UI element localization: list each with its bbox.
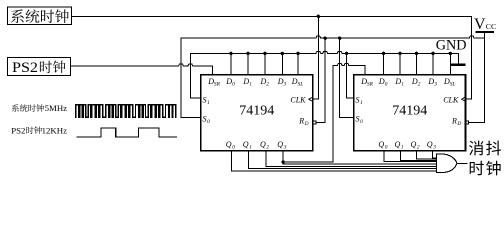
svg-text:CLK: CLK: [443, 96, 459, 105]
svg-text:0: 0: [385, 82, 388, 88]
svg-text:SR: SR: [214, 82, 221, 88]
wire: Q1 U2 to AND gate: [400, 151, 436, 161]
wire: system clock rail from 系统时钟 box to CLK of U2: [72, 16, 472, 99]
svg-text:CLK: CLK: [290, 96, 306, 105]
svg-text:SL: SL: [298, 82, 304, 88]
wire: U2 D0 stub to GND rail: [383, 53, 385, 75]
svg-text:0: 0: [232, 145, 235, 151]
waveform label: PS2时钟12KHz: [11, 125, 67, 135]
junction dot: S1 U2 on GND rail: [345, 52, 348, 55]
svg-text:S: S: [203, 95, 207, 104]
svg-text:SL: SL: [450, 82, 456, 88]
wire: Q3 U1 to D_SR U2 (hops over S risers of U2): [283, 64, 365, 163]
svg-text:1: 1: [401, 145, 404, 151]
junction dot: [229, 52, 232, 55]
wire: Q1 U1 to AND gate: [249, 151, 437, 169]
wire: Q3 U1 stub: [282, 151, 284, 162]
junction dot: [296, 52, 299, 55]
wire: U2 D2 stub to GND rail: [416, 53, 418, 75]
input port box: 系统时钟 (system clock): [8, 7, 72, 25]
waveform: system clock 5MHz: [76, 105, 176, 118]
wire: Q3 U1 to AND gate: [283, 162, 436, 164]
svg-text:2: 2: [417, 145, 420, 151]
svg-text:0: 0: [385, 145, 388, 151]
wire: U1 D1 stub to GND rail: [247, 53, 249, 75]
svg-text:1: 1: [207, 100, 210, 106]
svg-text:PS2: PS2: [11, 125, 25, 135]
wire: U1 DSL stub to GND rail: [297, 53, 299, 75]
svg-text:1: 1: [249, 145, 252, 151]
junction dot: [431, 52, 434, 55]
wire: Q0 U1 to AND gate: [232, 151, 437, 171]
junction dot: [398, 52, 401, 55]
wire: S0 of U1 to Vcc rail: [181, 38, 201, 117]
wire: Q0 U2 to AND gate: [384, 151, 436, 162]
svg-text:3: 3: [283, 82, 287, 88]
wire: AND gate output to 消抖时钟: [457, 162, 467, 164]
wire: S1 of U1 to GND rail: [190, 53, 201, 98]
wire: RD of U2 to Vcc vertical: [469, 121, 485, 123]
junction dot: Q3 U1 branch: [281, 160, 284, 163]
svg-text:3: 3: [433, 82, 437, 88]
svg-text:3: 3: [432, 145, 436, 151]
label: 消抖时钟 output: [469, 141, 501, 176]
svg-text:D: D: [456, 121, 461, 127]
svg-text:2: 2: [418, 82, 421, 88]
svg-text:Q: Q: [243, 140, 249, 149]
svg-text:1: 1: [360, 100, 363, 106]
svg-text:CC: CC: [486, 22, 496, 31]
junction dot: RD U1 on Vcc rail: [324, 37, 327, 40]
svg-text:PS2: PS2: [12, 60, 38, 76]
power symbol Vcc: [474, 16, 496, 123]
svg-text:D: D: [304, 121, 309, 127]
svg-text:Q: Q: [395, 140, 401, 149]
wire: GND rail: [190, 51, 458, 63]
svg-text:S: S: [356, 115, 360, 124]
svg-text:2: 2: [266, 82, 269, 88]
wire: Vcc rail: [181, 36, 485, 38]
svg-text:R: R: [298, 117, 304, 126]
junction dot: [449, 52, 452, 55]
svg-text:Q: Q: [277, 140, 283, 149]
polarity square: RD pin U2: [466, 121, 469, 124]
svg-text:3: 3: [283, 145, 287, 151]
svg-text:74194: 74194: [239, 104, 274, 119]
svg-text:1: 1: [249, 82, 252, 88]
svg-text:Q: Q: [411, 140, 417, 149]
junction dot: [246, 52, 249, 55]
svg-text:5MHz: 5MHz: [45, 103, 68, 113]
74194 shift register U1: [201, 75, 313, 151]
74194 shift register U2: [354, 75, 466, 151]
wire: Q2 U2 to AND gate: [416, 151, 436, 159]
svg-text:74194: 74194: [392, 104, 427, 119]
wire: CLK of U2 to clock rail vertical: [466, 98, 472, 100]
wire: U1 D2 stub to GND rail: [264, 53, 266, 75]
svg-text:V: V: [474, 16, 486, 33]
svg-text:1: 1: [401, 82, 404, 88]
svg-text:GND: GND: [436, 37, 467, 53]
wire: U1 D3 stub to GND rail: [281, 53, 283, 75]
junction dot: [415, 52, 418, 55]
input port box: PS2时钟 (PS2 clock): [8, 58, 71, 76]
AND gate U3 (8-input debounce): [436, 154, 457, 173]
svg-text:SR: SR: [367, 82, 374, 88]
polarity square: RD pin U1: [313, 121, 316, 124]
svg-text:S: S: [203, 115, 207, 124]
junction dot: [382, 52, 385, 55]
junction dot: S0 U2 on Vcc rail: [338, 37, 341, 40]
svg-text:Q: Q: [378, 140, 384, 149]
junction dot: [281, 52, 284, 55]
wire: S1 of U2 to GND rail: [347, 53, 354, 98]
svg-text:0: 0: [207, 119, 210, 125]
svg-text:0: 0: [232, 82, 235, 88]
wire: RD of U1 to Vcc rail: [316, 38, 325, 122]
wire: U2 DSL stub to GND rail: [449, 53, 451, 75]
wire: U1 D0 stub to GND rail: [230, 53, 232, 75]
wire: U2 D3 stub to GND rail: [432, 53, 434, 75]
svg-text:2: 2: [266, 145, 269, 151]
wire: S0 of U2 to Vcc rail: [340, 38, 354, 117]
wire: U2 D1 stub to GND rail: [399, 53, 401, 75]
svg-text:0: 0: [360, 119, 363, 125]
waveform: PS2 clock 12KHz: [77, 128, 176, 137]
wire: Q3 U2 to AND gate: [433, 151, 437, 158]
wire: CLK branch down to U1: [313, 16, 319, 99]
svg-text:12KHz: 12KHz: [42, 125, 68, 135]
junction dot: [263, 52, 266, 55]
svg-text:Q: Q: [226, 140, 232, 149]
waveform label: 系统时钟5MHz: [12, 103, 68, 113]
svg-text:R: R: [451, 117, 457, 126]
svg-text:Q: Q: [427, 140, 433, 149]
junction dot: clock rail to U1 CLK: [317, 15, 320, 18]
svg-text:Q: Q: [260, 140, 266, 149]
svg-text:S: S: [356, 95, 360, 104]
ground symbol: [452, 64, 464, 66]
wire: PS2 clock to D_SR of U1 (hops over S riser wires): [71, 64, 213, 75]
wire: Q2 U1 to AND gate: [266, 151, 437, 167]
